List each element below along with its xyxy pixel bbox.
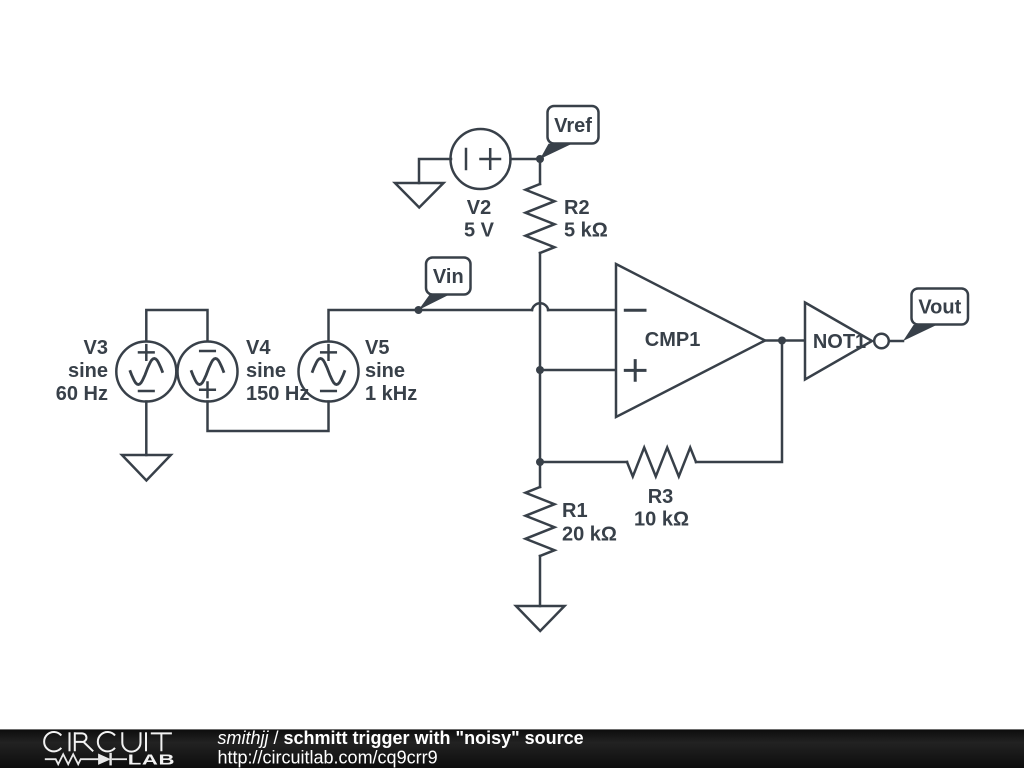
label Vout — [918, 297, 961, 319]
wire V4 bottom to V5 bottom — [208, 402, 329, 432]
node Vin flag — [419, 258, 471, 311]
CircuitLab logo resistor-diode glyph — [45, 753, 127, 766]
svg-text:R3: R3 — [648, 486, 674, 508]
voltage source V3 — [116, 342, 176, 402]
wire V3 top to V4 top — [146, 310, 207, 341]
CircuitLab logo wordmark CIRCUIT — [44, 732, 172, 752]
wire V3 bottom to ground — [145, 402, 148, 456]
svg-text:smithjj / schmitt trigger with: smithjj / schmitt trigger with "noisy" s… — [218, 728, 584, 748]
label V5 sine 1 kHz — [365, 337, 417, 405]
resistor R1 — [526, 487, 555, 556]
label Vin — [433, 266, 464, 288]
wire Vin to crossover — [419, 309, 533, 312]
svg-text:R1: R1 — [562, 500, 588, 522]
wire R3 to node A — [540, 461, 627, 464]
CircuitLab logo wordmark LAB — [128, 751, 175, 767]
wire CMP1 output to NOT1 input — [765, 339, 805, 342]
svg-text:V3: V3 — [84, 337, 108, 359]
ground (R1) — [516, 606, 565, 631]
label Vref — [554, 115, 592, 137]
svg-text:60 Hz: 60 Hz — [56, 383, 108, 405]
op-amp U1 comparator CMP1 — [616, 264, 765, 417]
wire feedback from output node to R3 — [696, 341, 782, 463]
svg-text:V5: V5 — [365, 337, 389, 359]
svg-text:1 kHz: 1 kHz — [365, 383, 417, 405]
svg-text:sine: sine — [68, 360, 108, 382]
wire crossover to CMP1 inverting input — [548, 309, 616, 312]
wire node A to R1 — [539, 462, 542, 487]
resistor R2 — [526, 184, 555, 253]
svg-text:10 kΩ: 10 kΩ — [634, 509, 689, 531]
svg-text:Vin: Vin — [433, 266, 464, 288]
svg-text:http://circuitlab.com/cq9crr9: http://circuitlab.com/cq9crr9 — [218, 748, 438, 768]
svg-text:sine: sine — [246, 360, 286, 382]
voltage source V4 — [178, 342, 238, 402]
svg-text:150 Hz: 150 Hz — [246, 383, 309, 405]
label R3 10 kOhm — [634, 486, 689, 531]
svg-text:sine: sine — [365, 360, 405, 382]
wire V2 negative to ground — [419, 159, 451, 183]
svg-text:R2: R2 — [564, 197, 590, 219]
wire Vref to R2 — [539, 163, 542, 184]
svg-text:V4: V4 — [246, 337, 271, 359]
label V3 sine 60 Hz — [56, 337, 108, 405]
label NOT1 — [813, 331, 866, 353]
ground (V3) — [122, 455, 171, 481]
node A junction dot (divider tap) — [536, 366, 544, 374]
footer credit line — [218, 728, 584, 768]
resistor R3 — [627, 448, 696, 477]
svg-text:LAB: LAB — [128, 751, 175, 767]
node Vref flag — [540, 106, 599, 159]
ground (V2) — [395, 183, 444, 208]
svg-text:NOT1: NOT1 — [813, 331, 866, 353]
label R1 20 kOhm — [562, 500, 617, 546]
node Vout flag — [903, 289, 968, 342]
voltage source V2 — [451, 129, 511, 189]
node A lower junction dot — [536, 458, 544, 466]
svg-text:5 kΩ: 5 kΩ — [564, 220, 608, 242]
wire R1 to ground — [539, 556, 542, 606]
label V4 sine 150 Hz — [246, 337, 309, 405]
svg-text:V2: V2 — [467, 197, 491, 219]
inverter NOT1 — [805, 303, 889, 380]
voltage source V5 — [299, 342, 359, 402]
label CMP1 — [645, 329, 701, 351]
node Vin junction dot — [415, 306, 423, 314]
node output junction dot — [778, 337, 786, 345]
wire R2 down through crossover to node A — [539, 253, 542, 462]
svg-text:20 kΩ: 20 kΩ — [562, 524, 617, 546]
node Vref junction dot — [536, 155, 544, 163]
svg-text:Vout: Vout — [918, 297, 961, 319]
wire NOT1 output to node Vout — [889, 340, 903, 343]
svg-text:5 V: 5 V — [464, 220, 495, 242]
label V2 5 V — [464, 197, 495, 242]
svg-text:CMP1: CMP1 — [645, 329, 701, 351]
label R2 5 kOhm — [564, 197, 608, 242]
footer bar — [0, 729, 1024, 768]
wire V5 top to node Vin — [329, 310, 419, 341]
wire crossover hop — [532, 303, 548, 310]
wire node A to CMP1 non-inverting input — [540, 369, 616, 372]
wire V2 positive to node Vref — [511, 158, 541, 161]
svg-text:Vref: Vref — [554, 115, 592, 137]
